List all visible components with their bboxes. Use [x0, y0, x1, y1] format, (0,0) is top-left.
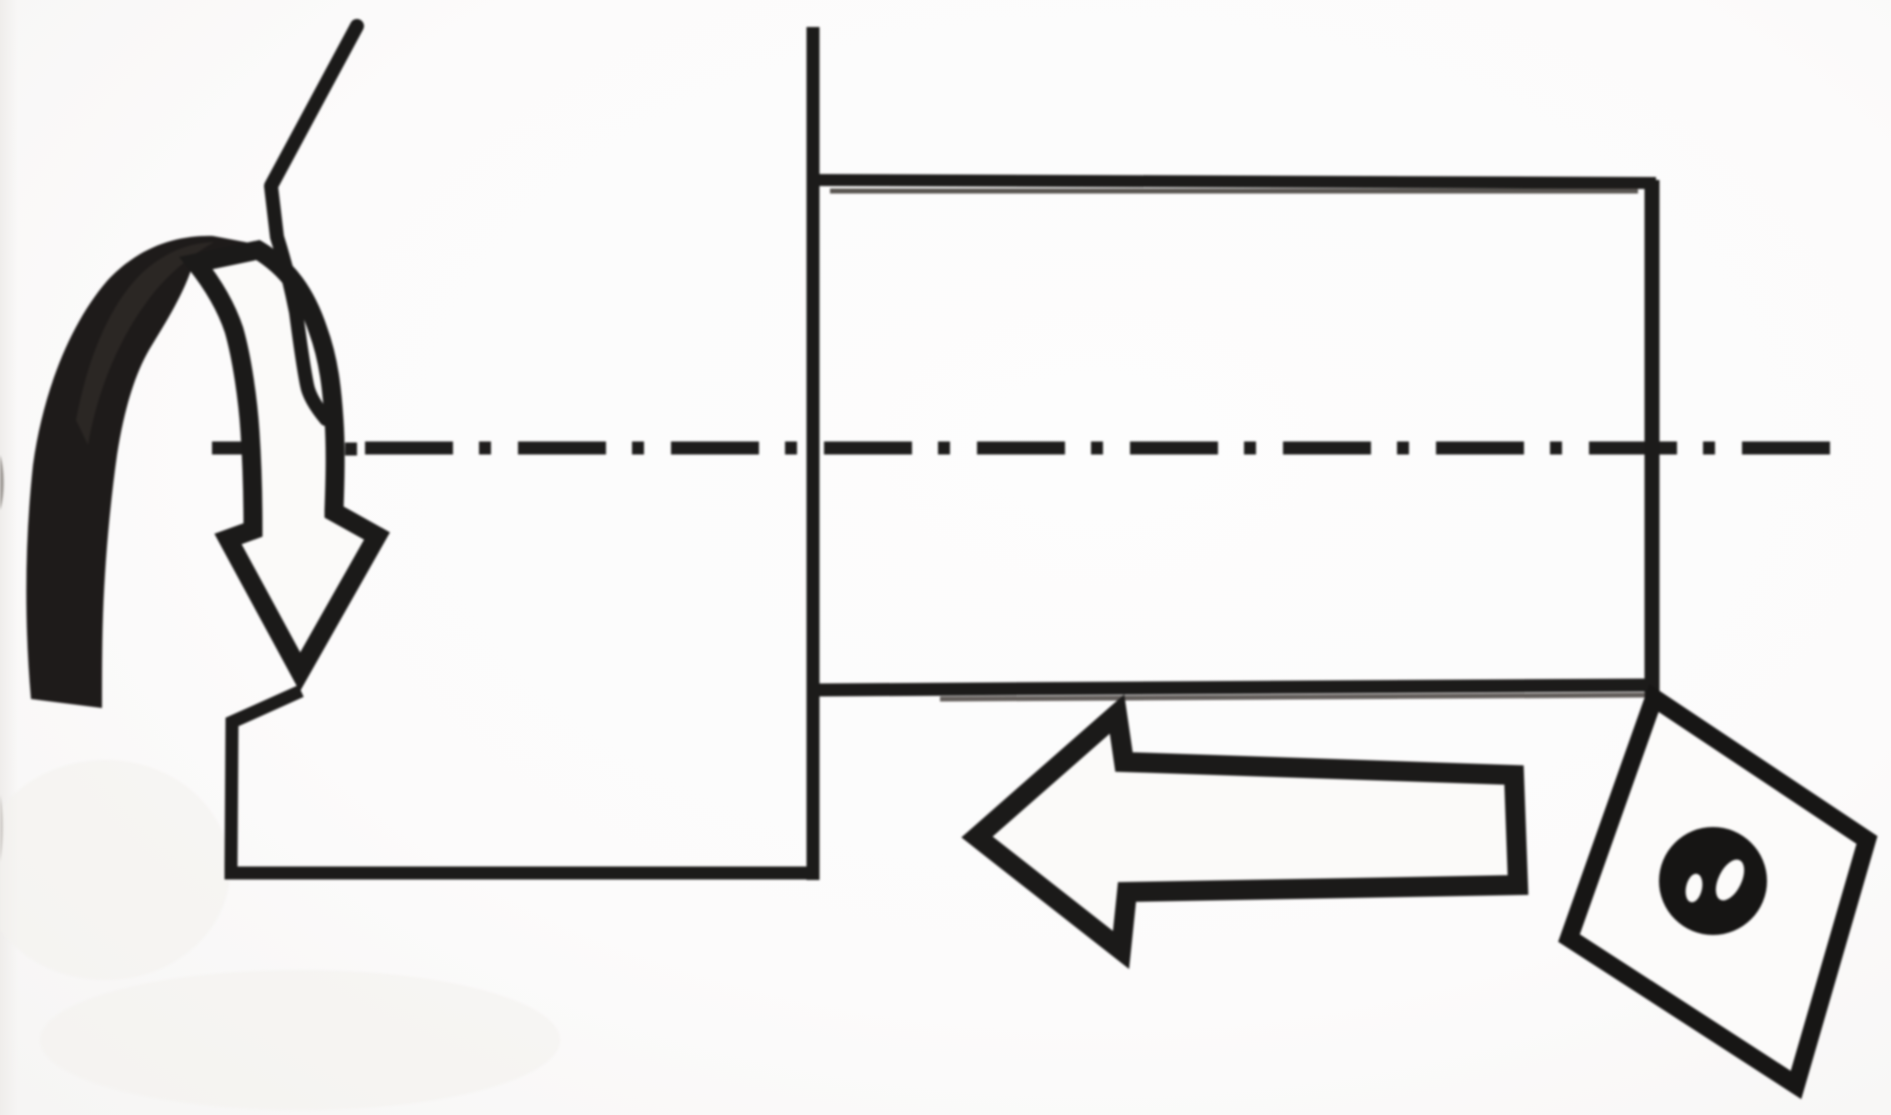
- paper edge scan mark lower: [0, 795, 3, 862]
- screw slot highlight left: [1683, 872, 1705, 904]
- workpiece bottom edge: [813, 685, 1655, 690]
- screw slot highlight right: [1710, 855, 1750, 905]
- paper smudge mid-left: [0, 760, 230, 980]
- rotation arrow white ribbon with hollow arrowhead: [196, 250, 377, 672]
- centerline (dash-dot axis of workpiece): [212, 442, 1832, 455]
- step profile: diagonal, left vertical, bottom horizontal: [231, 691, 818, 873]
- workpiece right end edge: [1645, 180, 1660, 703]
- insert clamp screw: [1659, 827, 1767, 935]
- rotation leader polyline: [271, 26, 357, 419]
- cutting insert (rotated square tool tip): [1569, 698, 1867, 1085]
- paper edge scan mark upper: [0, 455, 4, 510]
- feed direction arrow (hollow, pointing left): [977, 714, 1518, 950]
- top edge scan echo line: [830, 189, 1638, 194]
- bottom edge scan echo line: [940, 695, 1645, 699]
- rotation arrow solid crescent limb: [26, 236, 250, 708]
- workpiece shoulder vertical line: [807, 27, 820, 880]
- workpiece top edge: [813, 180, 1656, 183]
- crescent ink texture patch: [76, 242, 214, 445]
- paper smudge lower-left: [40, 970, 560, 1110]
- centerline stub right of ribbon: [345, 443, 357, 456]
